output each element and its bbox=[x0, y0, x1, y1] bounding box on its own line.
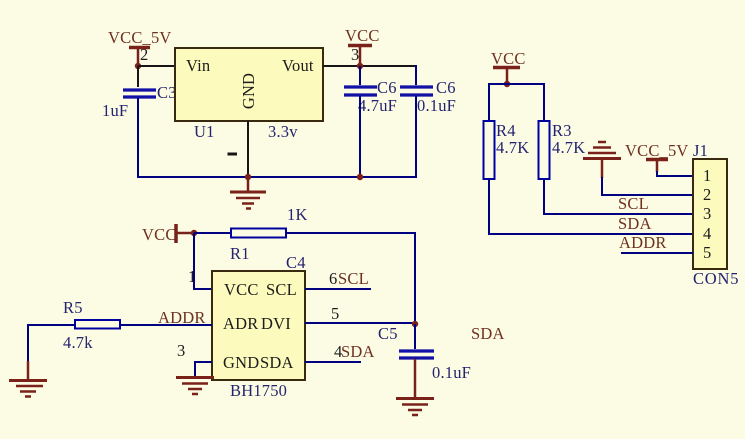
wire R1 right to corner and down to C5 junction bbox=[286, 233, 415, 324]
svg-text:6: 6 bbox=[329, 269, 337, 288]
svg-text:3.3v: 3.3v bbox=[268, 122, 298, 141]
wire R5 right to BH1750 ADR pin bbox=[120, 324, 212, 326]
transistor/IC BH1750 body bbox=[212, 271, 305, 400]
wire C6a down to rail bbox=[359, 96, 361, 177]
svg-text:2: 2 bbox=[140, 45, 148, 64]
wire R3 to J1 pin 3 bbox=[544, 179, 693, 214]
wire VCC_5V to J1 pin 1 bbox=[657, 171, 693, 176]
node junction VCC split bbox=[504, 81, 510, 87]
ground below BH1750 bbox=[176, 378, 214, 395]
svg-text:5: 5 bbox=[703, 243, 711, 262]
svg-text:J1: J1 bbox=[693, 141, 708, 160]
svg-text:1: 1 bbox=[188, 267, 196, 286]
svg-text:GND: GND bbox=[239, 73, 258, 109]
wire J1 pin 5 stub bbox=[621, 252, 693, 254]
wire down to R4 bbox=[488, 83, 490, 121]
wire bottom rail bbox=[137, 176, 417, 178]
svg-text:1uF: 1uF bbox=[102, 101, 128, 120]
svg-text:0.1uF: 0.1uF bbox=[432, 363, 471, 382]
svg-text:SDA: SDA bbox=[341, 342, 375, 361]
svg-text:4.7K: 4.7K bbox=[496, 138, 529, 157]
wire C6b down to rail bbox=[415, 96, 417, 178]
svg-text:ADR: ADR bbox=[223, 314, 258, 333]
svg-text:VCC: VCC bbox=[491, 49, 526, 68]
wire BH1750 pin 4 SDA bbox=[305, 361, 361, 363]
svg-text:SDA: SDA bbox=[471, 324, 505, 343]
ground below U1 bbox=[230, 177, 266, 209]
svg-text:C4: C4 bbox=[286, 253, 306, 272]
wire R4 to J1 pin 4 bbox=[489, 179, 693, 234]
svg-text:Vout: Vout bbox=[282, 56, 314, 75]
ground below C5 bbox=[396, 399, 434, 416]
svg-text:4.7uF: 4.7uF bbox=[358, 96, 397, 115]
svg-text:SDA: SDA bbox=[260, 353, 294, 372]
svg-text:SCL: SCL bbox=[618, 194, 649, 213]
capacitor C5 bbox=[399, 351, 471, 382]
svg-text:VCC: VCC bbox=[224, 280, 259, 299]
wire C5 bottom to ground bbox=[414, 359, 417, 397]
op-amp U1 regulator body bbox=[175, 48, 323, 141]
svg-text:5: 5 bbox=[331, 304, 339, 323]
power port VCC (right section) bbox=[491, 49, 526, 82]
wire R5 left to ground corner bbox=[28, 325, 75, 362]
power port VCC_5V (J1 pin 1) bbox=[625, 141, 689, 172]
wire junction to Vin pin bbox=[138, 65, 176, 67]
svg-text:1K: 1K bbox=[287, 205, 308, 224]
ground below R5 bbox=[9, 361, 47, 397]
svg-text:SCL: SCL bbox=[266, 280, 297, 299]
svg-text:CON5: CON5 bbox=[693, 269, 739, 288]
wire right corner down to C6b bbox=[415, 65, 417, 85]
svg-text:C5: C5 bbox=[378, 324, 398, 343]
wire VCC junction down to BH1750 pin 1 bbox=[194, 233, 212, 289]
pin number 1 (U1 GND, rotated dash) bbox=[228, 153, 238, 156]
svg-text:C6: C6 bbox=[436, 78, 456, 97]
connector J1 body bbox=[693, 141, 739, 288]
svg-text:DVI: DVI bbox=[261, 314, 291, 333]
wire down to R3 bbox=[543, 83, 545, 121]
svg-text:4.7k: 4.7k bbox=[63, 333, 93, 352]
svg-text:SCL: SCL bbox=[338, 269, 369, 288]
capacitor C6 0.1uF bbox=[400, 78, 456, 115]
wire U1 GND pin down to rail bbox=[247, 121, 249, 177]
power port VCC (above Vout) bbox=[345, 26, 380, 63]
svg-text:4.7K: 4.7K bbox=[552, 138, 585, 157]
capacitor C3 bbox=[102, 83, 177, 120]
svg-text:GND: GND bbox=[223, 353, 259, 372]
node junction at Vout/VCC bbox=[357, 63, 363, 69]
wire junction to R1 bbox=[194, 232, 231, 234]
svg-text:VCC_5V: VCC_5V bbox=[625, 141, 689, 160]
node junction at VCC_5V / Vin / C3 bbox=[135, 63, 141, 69]
svg-text:3: 3 bbox=[703, 204, 711, 223]
resistor R1 bbox=[230, 205, 308, 263]
svg-text:3: 3 bbox=[177, 341, 185, 360]
svg-text:Vin: Vin bbox=[186, 56, 210, 75]
node junction C6a/rail bbox=[357, 174, 363, 180]
svg-text:3: 3 bbox=[351, 45, 359, 64]
node junction C5/pin5/R1 bbox=[412, 321, 418, 327]
node junction VCC/R1/pin1 bbox=[191, 230, 197, 236]
wire junction down to C3 bbox=[137, 66, 139, 87]
wire BH1750 pin 5 DVI to C5 junction bbox=[305, 322, 415, 324]
resistor R5 bbox=[63, 298, 120, 352]
svg-text:BH1750: BH1750 bbox=[230, 381, 287, 400]
wire junction down to C5 bbox=[414, 324, 416, 349]
svg-text:1: 1 bbox=[703, 166, 711, 185]
node junction GND/rail bbox=[245, 174, 251, 180]
svg-text:R1: R1 bbox=[230, 244, 250, 263]
resistor R4 bbox=[484, 121, 530, 179]
power port VCC_5V (top left) bbox=[108, 28, 172, 63]
capacitor C6 4.7uF bbox=[344, 78, 397, 115]
wire C3 bottom down to rail bbox=[137, 98, 139, 178]
wire Vout to right bbox=[323, 65, 417, 67]
svg-text:ADDR: ADDR bbox=[619, 233, 667, 252]
svg-text:R5: R5 bbox=[63, 298, 83, 317]
svg-text:ADDR: ADDR bbox=[158, 308, 206, 327]
svg-text:VCC: VCC bbox=[142, 225, 177, 244]
wire ground to J1 pin 2 bbox=[602, 177, 693, 195]
svg-text:2: 2 bbox=[703, 185, 711, 204]
power port VCC (BH1750 supply) bbox=[142, 224, 192, 244]
resistor R3 bbox=[539, 121, 586, 179]
svg-text:U1: U1 bbox=[194, 122, 215, 141]
svg-text:C3: C3 bbox=[157, 83, 177, 102]
svg-text:0.1uF: 0.1uF bbox=[417, 96, 456, 115]
svg-text:SDA: SDA bbox=[618, 214, 652, 233]
wire BH1750 GND pin to ground bbox=[195, 362, 212, 376]
wire VCC junction down to C6a bbox=[359, 66, 361, 85]
svg-text:VCC: VCC bbox=[345, 26, 380, 45]
svg-text:4: 4 bbox=[703, 224, 711, 243]
wire BH1750 pin 6 SCL bbox=[305, 288, 371, 290]
svg-text:C6: C6 bbox=[377, 78, 397, 97]
ground (inverted) at J1 pin 2 bbox=[583, 142, 621, 178]
wire VCC split rail bbox=[489, 83, 544, 85]
